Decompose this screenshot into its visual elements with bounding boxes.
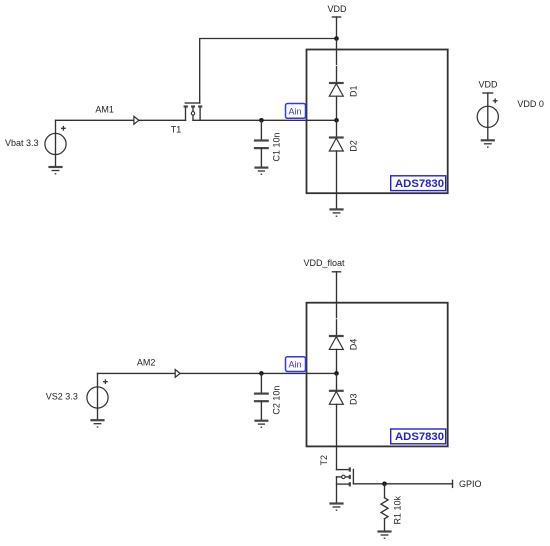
ground (VS2) xyxy=(90,420,104,427)
svg-text:VDD 0: VDD 0 xyxy=(517,99,544,109)
svg-text:D4: D4 xyxy=(349,339,359,351)
node label Ain (top) xyxy=(286,104,306,119)
svg-text:D1: D1 xyxy=(349,85,359,97)
wire VDD node to D1 (pin gap at IC boundary) xyxy=(336,39,338,84)
svg-text:R1 10k: R1 10k xyxy=(392,495,402,524)
svg-text:AM2: AM2 xyxy=(137,358,156,368)
diode D2 xyxy=(329,138,344,152)
power terminal VDD xyxy=(328,4,348,39)
label D4 xyxy=(349,339,359,351)
ground (C2) xyxy=(254,421,268,428)
label D1 xyxy=(349,85,359,97)
svg-text:VS2 3.3: VS2 3.3 xyxy=(46,392,78,402)
capacitor C1 10n xyxy=(254,120,281,167)
wire T1 gate to VDD node xyxy=(200,39,337,104)
svg-text:VDD_float: VDD_float xyxy=(304,258,346,268)
diode D3 xyxy=(329,391,344,405)
wire Ain node to D2 xyxy=(336,120,338,137)
wire Ain (C1 node to IC pin) xyxy=(193,119,337,121)
resistor R1 10k xyxy=(381,484,402,532)
transistor T1 (MOSFET) xyxy=(171,103,203,135)
wire Vbat to T1 source xyxy=(56,119,186,121)
transistor T2 (MOSFET) xyxy=(319,455,353,486)
junction dot C1 node xyxy=(259,118,264,123)
ground (Vbat) xyxy=(48,167,62,174)
svg-text:D3: D3 xyxy=(349,393,359,405)
ground (R1) xyxy=(377,532,391,539)
wire D2 to ground xyxy=(336,151,338,209)
ground (VDD source) xyxy=(481,140,495,147)
IC U1 box ADS7830 xyxy=(307,50,448,194)
svg-text:VDD: VDD xyxy=(328,4,348,14)
wire D3 to T2 drain xyxy=(336,404,338,469)
wire D1 to Ain node xyxy=(336,96,338,120)
svg-text:ADS7830: ADS7830 xyxy=(395,178,444,190)
svg-text:VDD: VDD xyxy=(479,80,499,90)
junction dot C2 node xyxy=(259,371,264,376)
junction dot Ain node bottom xyxy=(334,371,339,376)
junction dot R1 node xyxy=(382,482,387,487)
svg-text:AM1: AM1 xyxy=(95,105,114,115)
wire VDD_float to D4 (pin gap at IC boundary) xyxy=(336,272,338,336)
label D2 xyxy=(349,140,359,152)
label ADS7830 (U2) xyxy=(391,429,446,444)
ground (IC internal) xyxy=(329,209,343,216)
voltage source Vbat 3.3 xyxy=(5,120,66,167)
power terminal VDD_float xyxy=(304,258,346,272)
wire T2 gate to GPIO xyxy=(353,483,452,485)
svg-text:C1 10n: C1 10n xyxy=(271,132,281,161)
voltage source VDD 0 (right) xyxy=(477,80,544,141)
ammeter arrow AM1 xyxy=(95,105,138,125)
wire VS2 to C2 node xyxy=(98,372,262,374)
ammeter arrow AM2 xyxy=(137,358,180,378)
svg-text:GPIO: GPIO xyxy=(459,479,482,489)
svg-text:T1: T1 xyxy=(171,125,182,135)
label D3 xyxy=(349,393,359,405)
voltage source VS2 3.3 xyxy=(46,373,108,420)
junction dot Ain node top xyxy=(334,118,339,123)
svg-text:T2: T2 xyxy=(319,455,329,466)
wire Ain (C2 node to IC pin) xyxy=(261,372,336,374)
ground (T2 source) xyxy=(329,504,343,511)
diode D1 xyxy=(329,83,344,96)
diode D4 xyxy=(329,336,344,349)
wire D4 to Ain node xyxy=(336,349,338,373)
svg-text:Ain: Ain xyxy=(289,106,302,116)
capacitor C2 10n xyxy=(254,373,281,420)
svg-text:D2: D2 xyxy=(349,140,359,152)
svg-text:ADS7830: ADS7830 xyxy=(395,431,444,443)
junction dot VDD node xyxy=(334,36,339,41)
wire Ain node to D3 xyxy=(336,373,338,390)
wire T2 source to ground xyxy=(336,477,338,504)
ground (C1) xyxy=(254,168,268,175)
svg-text:Vbat 3.3: Vbat 3.3 xyxy=(5,138,39,148)
label ADS7830 (U1) xyxy=(391,176,446,191)
svg-text:C2 10n: C2 10n xyxy=(271,386,281,415)
IC U2 box ADS7830 xyxy=(307,303,448,447)
svg-text:Ain: Ain xyxy=(289,360,302,370)
terminal GPIO xyxy=(453,479,482,489)
node label Ain (bottom) xyxy=(286,357,306,372)
